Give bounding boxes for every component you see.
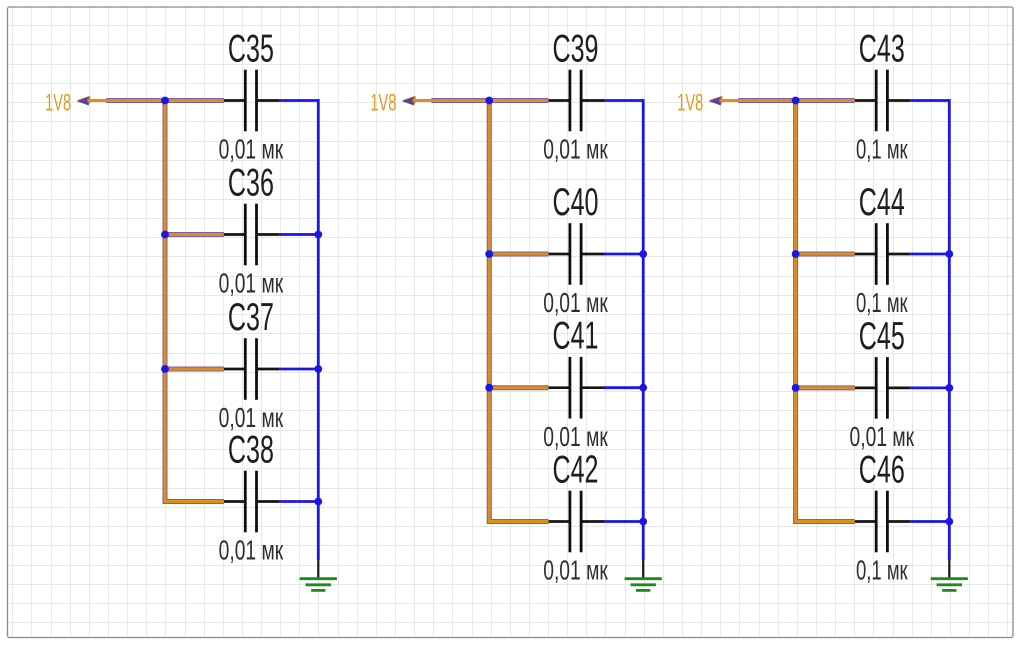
junction node GND row4 (column 1) — [314, 498, 322, 506]
wire GND vertical rail (column 2) — [642, 102, 645, 560]
net 1V8 arrow (column 2) — [402, 96, 416, 106]
capacitor C45 — [855, 357, 911, 419]
wire 1V8 branch to C44 (column 3) — [796, 252, 855, 257]
wire 1V8 stub from arrow (column 2) — [413, 99, 432, 102]
svg-text:0,01 мк: 0,01 мк — [219, 134, 284, 165]
svg-text:C39: C39 — [553, 28, 599, 71]
svg-text:C37: C37 — [228, 296, 274, 339]
junction node 1V8 row2 (column 3) — [792, 250, 800, 258]
junction node 1V8 top tee (column 2) — [485, 97, 493, 105]
wire GND from C40 to rail (column 2) — [604, 253, 643, 256]
ground (column 1) — [300, 560, 337, 591]
junction node GND row3 (column 2) — [639, 384, 647, 392]
junction node 1V8 row3 (column 2) — [485, 384, 493, 392]
wire 1V8 stub from arrow (column 3) — [719, 99, 738, 102]
junction node 1V8 top tee (column 1) — [161, 97, 169, 105]
junction node 1V8 top tee (column 3) — [792, 97, 800, 105]
ground (column 3) — [931, 560, 968, 591]
svg-text:0,01 мк: 0,01 мк — [543, 555, 608, 586]
svg-text:1V8: 1V8 — [370, 89, 396, 116]
junction node GND row2 (column 2) — [639, 250, 647, 258]
svg-text:0,01 мк: 0,01 мк — [219, 535, 284, 566]
svg-text:C41: C41 — [553, 315, 599, 358]
svg-text:0,1 мк: 0,1 мк — [856, 555, 908, 586]
wire GND from C37 to rail (column 1) — [279, 368, 318, 371]
wire 1V8 branch to C36 (column 1) — [165, 232, 224, 237]
wire 1V8 horizontal to C39 (column 2) — [431, 98, 548, 103]
wire GND top bend (column 1) — [317, 99, 320, 102]
svg-text:C40: C40 — [553, 181, 599, 224]
wire 1V8 stub from arrow (column 1) — [87, 99, 106, 102]
junction node 1V8 row2 (column 1) — [161, 231, 169, 239]
ground (column 2) — [625, 560, 662, 591]
wire 1V8 vertical bus with bend to C46 (column 3) — [796, 98, 855, 522]
svg-text:C38: C38 — [228, 429, 274, 472]
wire 1V8 branch to C40 (column 2) — [489, 252, 548, 257]
wire GND from C43 to rail (column 3) — [910, 99, 949, 102]
wire GND from C44 to rail (column 3) — [910, 253, 949, 256]
junction node GND row3 (column 3) — [945, 384, 953, 392]
junction node 1V8 row3 (column 1) — [161, 365, 169, 373]
wire 1V8 branch to C45 (column 3) — [796, 385, 855, 390]
svg-text:C45: C45 — [859, 315, 905, 358]
capacitor C46 — [855, 491, 911, 553]
junction node 1V8 row2 (column 2) — [485, 250, 493, 258]
svg-text:C35: C35 — [228, 28, 274, 71]
capacitor C43 — [855, 70, 911, 132]
capacitor C37 — [224, 338, 280, 400]
wire GND from C42 to rail (column 2) — [604, 520, 643, 523]
svg-text:1V8: 1V8 — [677, 89, 703, 116]
svg-text:C43: C43 — [859, 28, 905, 71]
net 1V8 arrow (column 1) — [77, 96, 91, 106]
svg-text:C42: C42 — [553, 449, 599, 492]
wire 1V8 horizontal to C43 (column 3) — [738, 98, 855, 103]
wire GND from C36 to rail (column 1) — [279, 233, 318, 236]
svg-text:0,01 мк: 0,01 мк — [543, 287, 608, 318]
wire GND from C38 to rail (column 1) — [279, 500, 318, 503]
svg-text:0,01 мк: 0,01 мк — [219, 268, 284, 299]
net 1V8 arrow (column 3) — [709, 96, 723, 106]
wire GND top bend (column 3) — [948, 99, 951, 102]
wire GND from C45 to rail (column 3) — [910, 386, 949, 389]
wire GND from C46 to rail (column 3) — [910, 520, 949, 523]
wire GND vertical rail (column 1) — [317, 102, 320, 560]
wire 1V8 branch to C41 (column 2) — [489, 385, 548, 390]
wire 1V8 vertical bus with bend to C42 (column 2) — [489, 98, 548, 522]
svg-text:1V8: 1V8 — [45, 89, 71, 116]
svg-text:0,1 мк: 0,1 мк — [856, 134, 908, 165]
capacitor C41 — [549, 357, 605, 419]
junction node GND row2 (column 1) — [314, 231, 322, 239]
junction node GND row3 (column 1) — [314, 365, 322, 373]
wire GND vertical rail (column 3) — [948, 102, 951, 560]
capacitor C35 — [224, 70, 280, 132]
wire GND from C41 to rail (column 2) — [604, 386, 643, 389]
wire 1V8 branch to C37 (column 1) — [165, 367, 224, 372]
capacitor C42 — [549, 491, 605, 553]
capacitor C36 — [224, 204, 280, 266]
svg-text:0,01 мк: 0,01 мк — [543, 134, 608, 165]
svg-text:0,01 мк: 0,01 мк — [850, 421, 915, 452]
junction node GND row2 (column 3) — [945, 250, 953, 258]
svg-text:0,1 мк: 0,1 мк — [856, 287, 908, 318]
wire GND top bend (column 2) — [642, 99, 645, 102]
capacitor C44 — [855, 223, 911, 285]
svg-text:C46: C46 — [859, 449, 905, 492]
wire GND from C35 to rail (column 1) — [279, 99, 318, 102]
svg-text:C44: C44 — [859, 181, 905, 224]
wire GND from C39 to rail (column 2) — [604, 99, 643, 102]
junction node 1V8 row3 (column 3) — [792, 384, 800, 392]
svg-text:0,01 мк: 0,01 мк — [543, 421, 608, 452]
capacitor C40 — [549, 223, 605, 285]
wire 1V8 vertical bus with bend to C38 (column 1) — [165, 98, 224, 502]
junction node GND row4 (column 3) — [945, 518, 953, 526]
capacitor C38 — [224, 471, 280, 533]
svg-text:C36: C36 — [228, 162, 274, 205]
capacitor C39 — [549, 70, 605, 132]
wire 1V8 horizontal to C35 (column 1) — [106, 98, 224, 103]
junction node GND row4 (column 2) — [639, 518, 647, 526]
